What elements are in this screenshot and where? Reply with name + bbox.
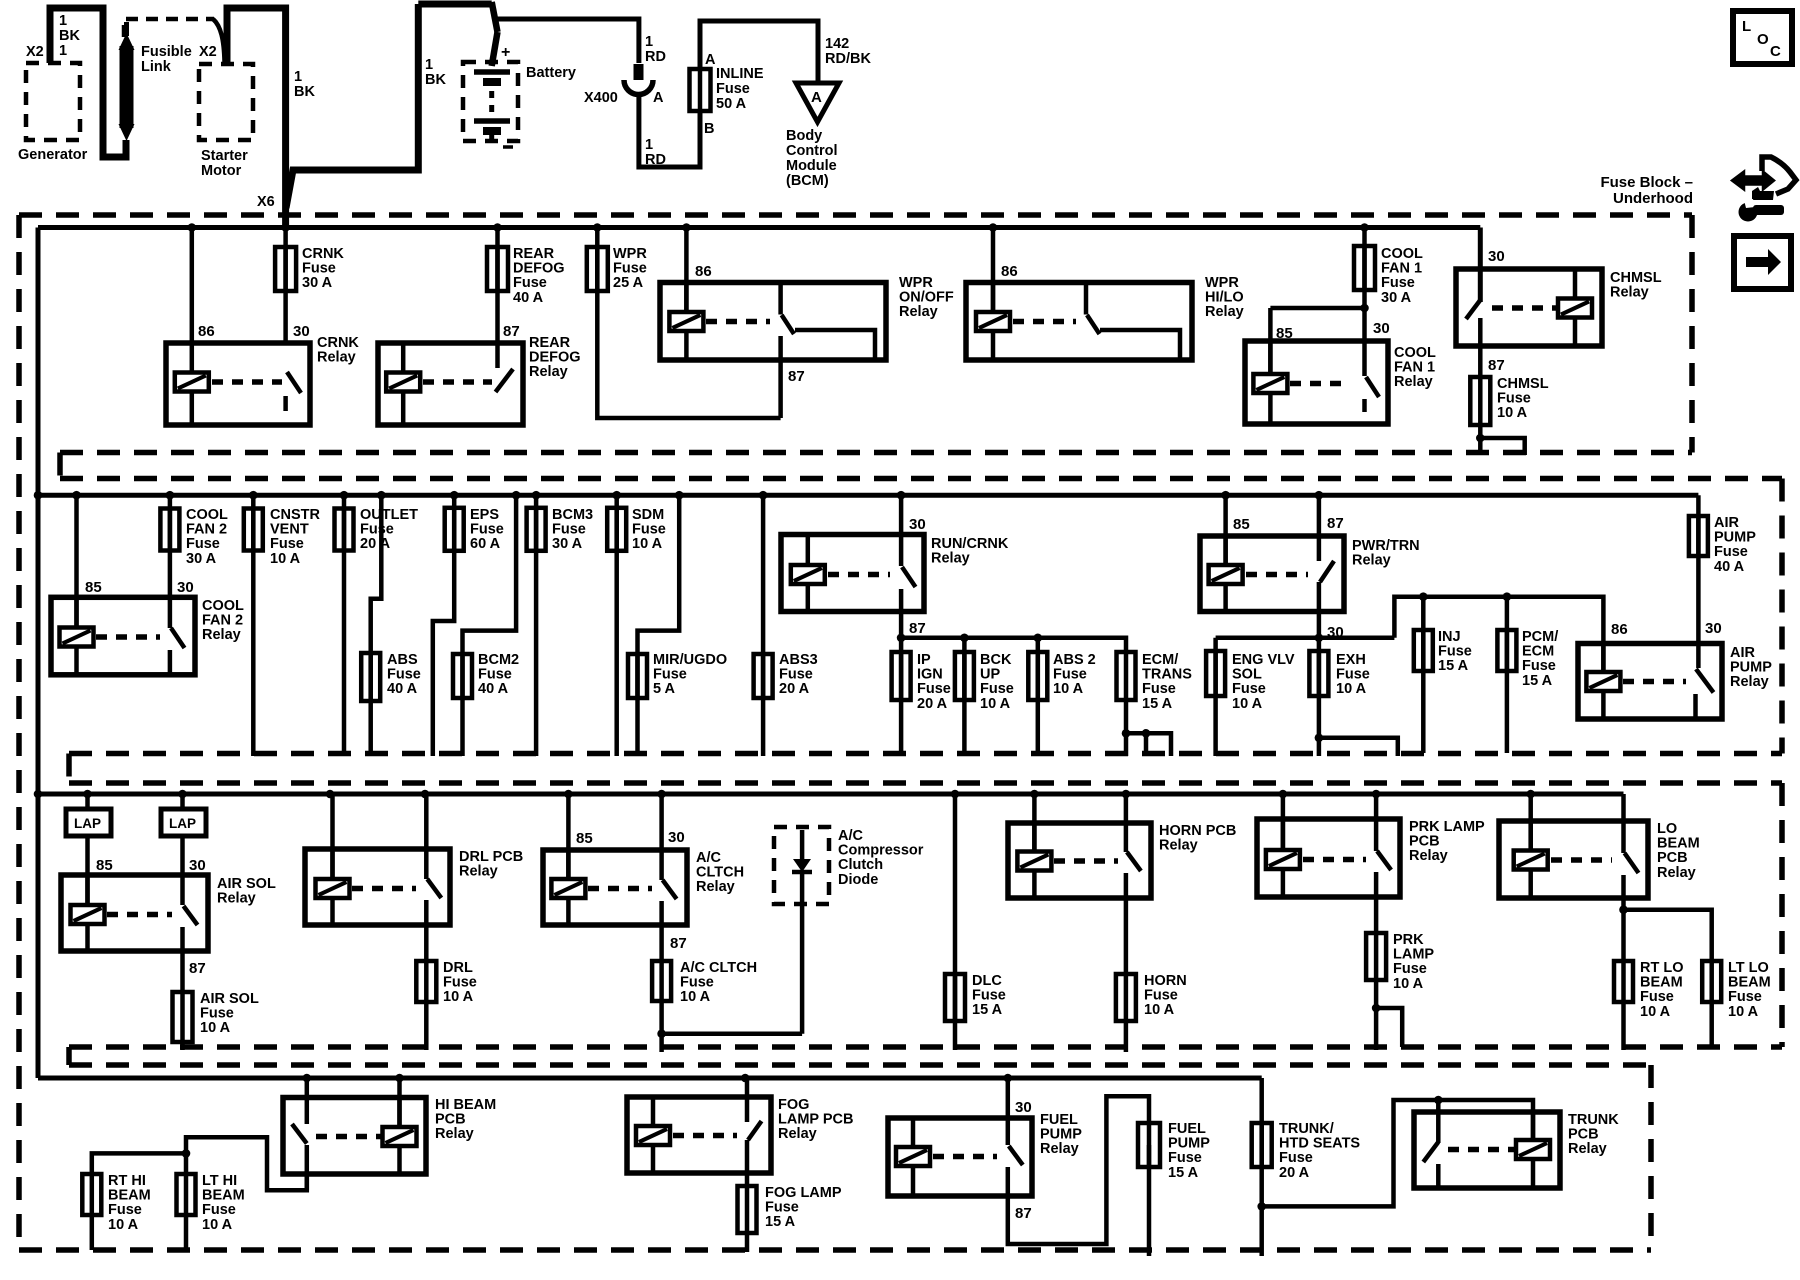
svg-text:O: O — [1757, 31, 1769, 48]
svg-text:DRLFuse10 A: DRLFuse10 A — [443, 960, 477, 1005]
fuse SDM 10 A — [614, 495, 619, 756]
svg-text:B: B — [704, 121, 714, 137]
fuse RT HI BEAM 10 A — [90, 1174, 95, 1215]
relay DRL PCB — [330, 794, 335, 879]
fusible link — [120, 46, 134, 128]
fuse block underhood dashed border outline — [19, 212, 1692, 218]
fuse EPS 60 A — [433, 495, 454, 756]
svg-text:X2: X2 — [199, 44, 217, 60]
svg-text:85: 85 — [1233, 516, 1250, 533]
svg-text:CRNKRelay: CRNKRelay — [317, 335, 359, 366]
connector X400 — [634, 64, 644, 80]
svg-text:85: 85 — [85, 579, 102, 596]
wire battery to X400 — [497, 19, 639, 63]
starter motor X2 connector — [199, 64, 253, 140]
wire bus row2 — [38, 493, 1698, 498]
fuse WPR 25 A — [597, 228, 780, 419]
svg-text:86: 86 — [1611, 621, 1628, 638]
svg-text:L: L — [1742, 18, 1751, 35]
wire starter motor to X6 node — [227, 8, 286, 227]
svg-text:X2: X2 — [26, 44, 44, 60]
fuse AIR PUMP 40 A — [1696, 495, 1701, 643]
svg-text:A: A — [653, 90, 664, 106]
svg-text:85: 85 — [96, 857, 113, 874]
svg-text:X400: X400 — [584, 90, 618, 106]
relay COOL FAN 1 — [1270, 306, 1364, 311]
fuse CHMSL 10 A — [1478, 377, 1483, 425]
relay AIR PUMP — [1578, 644, 1722, 720]
wire ignition feed from RUN/CRNK 87 — [901, 638, 1126, 652]
svg-text:ABSFuse40 A: ABSFuse40 A — [387, 652, 421, 697]
fuse FOG LAMP 15 A — [745, 1186, 750, 1233]
svg-text:WPRFuse25 A: WPRFuse25 A — [613, 246, 647, 291]
wire bus row3 — [38, 792, 1624, 797]
svg-text:87: 87 — [1015, 1205, 1032, 1222]
svg-text:A: A — [705, 52, 716, 68]
fuse ENG VLV SOL 10 A — [1213, 638, 1218, 756]
relay COOL FAN 2 — [74, 495, 79, 629]
svg-text:86: 86 — [198, 323, 215, 340]
relay WPR ON/OFF — [684, 228, 689, 314]
fuse DRL 10 A — [424, 961, 429, 1002]
fuse ABS3 20 A — [761, 495, 766, 756]
icon LOC box — [1733, 11, 1792, 64]
svg-text:85: 85 — [1276, 325, 1293, 342]
fuse PRK LAMP 10 A — [1374, 933, 1379, 980]
relay FOG LAMP PCB — [627, 1097, 771, 1173]
fuse ECM/TRANS 15 A — [1124, 652, 1129, 700]
wire left trunk feed — [36, 228, 41, 1079]
svg-text:87: 87 — [1327, 515, 1344, 532]
svg-text:30: 30 — [668, 829, 685, 846]
relay PRK LAMP PCB — [1281, 794, 1286, 851]
relay RUN/CRNK — [781, 535, 924, 612]
fuse REAR DEFOG 40 A — [495, 228, 500, 344]
wire inline fuse to BCM — [700, 21, 818, 83]
svg-text:FUELPUMPRelay: FUELPUMPRelay — [1040, 1112, 1082, 1157]
svg-text:DLCFuse15 A: DLCFuse15 A — [972, 973, 1006, 1018]
wire bus row1 — [38, 225, 1480, 230]
svg-text:87: 87 — [189, 960, 206, 977]
fuse COOL FAN 2 30 A — [168, 495, 173, 597]
relay CHMSL — [1478, 228, 1483, 303]
svg-text:EXHFuse10 A: EXHFuse10 A — [1336, 652, 1370, 697]
fuse RT LO BEAM 10 A — [1619, 905, 1628, 914]
svg-text:LAP: LAP — [74, 816, 101, 831]
svg-text:BCKUPFuse10 A: BCKUPFuse10 A — [980, 652, 1014, 712]
svg-text:C: C — [1770, 43, 1781, 60]
svg-text:30: 30 — [189, 857, 206, 874]
svg-text:Generator: Generator — [18, 147, 88, 163]
fuse LT HI BEAM 10 A — [184, 1174, 189, 1215]
relay WPR HI/LO — [991, 228, 996, 314]
relay CRNK — [190, 228, 195, 344]
relay HORN PCB — [1032, 794, 1037, 852]
fuse CRNK 30 A — [283, 228, 288, 344]
svg-text:30: 30 — [1373, 320, 1390, 337]
svg-text:30: 30 — [293, 323, 310, 340]
relay HI BEAM PCB — [305, 1078, 310, 1123]
wire FUEL PUMP relay 87 to fuse — [1008, 1096, 1149, 1244]
op-amp-style triangle Body Control Module input A — [796, 83, 839, 122]
fuse TRUNK/HTD SEATS 20 A — [1259, 1078, 1264, 1256]
svg-text:COOLFAN 1Relay: COOLFAN 1Relay — [1394, 345, 1436, 390]
fuse MIR/UGDO 5 A — [638, 495, 680, 756]
relay TRUNK PCB — [1414, 1112, 1560, 1188]
icon navigation arrows and wrench — [1732, 172, 1774, 190]
fuse AIR SOL 10 A — [180, 992, 185, 1042]
relay A/C CLTCH — [566, 794, 571, 880]
svg-text:+: + — [501, 44, 510, 61]
generator X2 connector — [26, 63, 80, 140]
svg-text:30: 30 — [909, 516, 926, 533]
inline fuse 50 A — [698, 69, 703, 111]
wire battery negative to X6 — [286, 4, 418, 208]
wire generator to fusible link — [50, 8, 126, 157]
wire bus row4 — [38, 1076, 1262, 1081]
fuse EXH 10 A — [1317, 638, 1322, 756]
svg-text:Battery: Battery — [526, 65, 576, 81]
fuse ABS 2 10 A — [1036, 638, 1041, 756]
fuse IP IGN 20 A — [899, 638, 904, 756]
fuse BCM2 40 A — [463, 495, 517, 756]
wire battery positive feed — [418, 1, 491, 8]
svg-text:SDMFuse10 A: SDMFuse10 A — [632, 507, 666, 552]
svg-text:StarterMotor: StarterMotor — [201, 148, 248, 179]
fuse DLC 15 A — [953, 794, 958, 1050]
fuse ABS 40 A — [371, 495, 382, 756]
icon forward arrow box — [1734, 236, 1791, 289]
relay FUEL PUMP — [888, 1118, 1032, 1196]
svg-text:30: 30 — [1015, 1099, 1032, 1116]
svg-text:A: A — [811, 89, 822, 106]
battery B1 — [463, 62, 518, 141]
svg-text:86: 86 — [1001, 263, 1018, 280]
svg-text:87: 87 — [670, 935, 687, 952]
svg-text:87: 87 — [1488, 357, 1505, 374]
svg-text:Fuse Block –Underhood: Fuse Block –Underhood — [1600, 174, 1693, 207]
connector LAP left — [85, 794, 90, 905]
fuse LT LO BEAM 10 A — [1624, 910, 1712, 961]
svg-text:30: 30 — [1705, 620, 1722, 637]
fuse PCM/ECM 15 A — [1505, 597, 1510, 753]
fusible link connector dashed outline — [124, 19, 214, 37]
svg-text:86: 86 — [695, 263, 712, 280]
svg-text:87: 87 — [788, 368, 805, 385]
relay LO BEAM PCB — [1528, 794, 1533, 852]
fuse BCK UP 10 A — [962, 638, 967, 756]
svg-text:85: 85 — [576, 830, 593, 847]
fuse FUEL PUMP 15 A — [1147, 1123, 1152, 1167]
relay REAR DEFOG — [378, 343, 523, 425]
svg-text:30: 30 — [1488, 248, 1505, 265]
fuse A/C CLTCH 10 A — [659, 961, 664, 1001]
connector LAP right — [180, 794, 185, 875]
relay PWR/TRN — [1223, 495, 1228, 566]
diode A/C compressor clutch — [774, 827, 829, 904]
fuse COOL FAN 1 30 A — [1362, 228, 1367, 342]
svg-text:87: 87 — [503, 323, 520, 340]
relay AIR SOL — [61, 875, 208, 951]
svg-text:87: 87 — [909, 620, 926, 637]
fuse INJ 15 A — [1421, 597, 1426, 753]
svg-text:X6: X6 — [257, 194, 275, 210]
svg-text:COOLFAN 2Relay: COOLFAN 2Relay — [202, 598, 244, 643]
svg-text:30: 30 — [177, 579, 194, 596]
wire TRUNK fuse to TRUNK PCB relay — [1262, 1100, 1533, 1206]
fuse CNSTR VENT 10 A — [251, 495, 256, 756]
fuse HORN 10 A — [1124, 974, 1129, 1021]
svg-text:EPSFuse60 A: EPSFuse60 A — [470, 507, 504, 552]
fuse BCM3 30 A — [534, 495, 539, 756]
fuse OUTLET 20 A — [342, 495, 347, 756]
wire X400 to inline fuse — [639, 93, 700, 167]
svg-text:WPRHI/LORelay: WPRHI/LORelay — [1205, 275, 1244, 320]
wire HI BEAM relay output to fuses — [92, 1137, 307, 1190]
wire PWR/TRN 30 distribution — [1216, 636, 1395, 641]
svg-text:LAP: LAP — [169, 816, 196, 831]
